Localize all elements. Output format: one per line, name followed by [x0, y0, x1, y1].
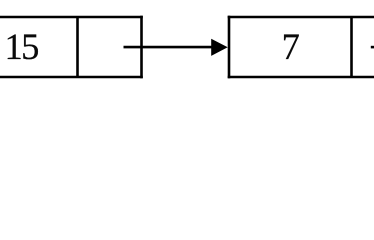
wire: N2 next-pointer arrow stub (cropped at right edge): [371, 46, 374, 49]
svg-text:15: 15: [5, 26, 39, 67]
wire: N2 left edge: [228, 16, 231, 79]
arrow: N1 next pointer to N2: [124, 39, 228, 56]
svg-text:7: 7: [282, 26, 300, 67]
wire: N2 bottom border: [228, 76, 374, 79]
wire: N1 top border: [0, 16, 143, 19]
wire: N2 cell divider: [350, 17, 353, 77]
wire: N1 right edge: [140, 16, 143, 79]
wire: N1 bottom border: [0, 76, 143, 79]
node N1 box (left edge cropped off-image): [0, 16, 143, 79]
node N2 box (right edge cropped off-image): [228, 16, 374, 79]
wire: N1 cell divider: [76, 17, 79, 77]
arrowhead: [211, 39, 228, 56]
wire: N2 top border: [228, 16, 374, 19]
wire: arrow shaft: [124, 46, 215, 49]
